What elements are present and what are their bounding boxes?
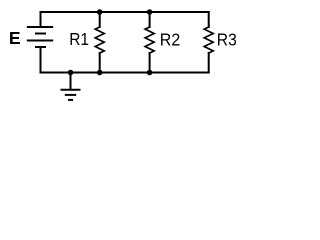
junction dot: R2 bottom node: [147, 70, 153, 76]
battery plate: short (-) top cell: [36, 33, 45, 35]
battery plate: long (+) top cell: [28, 26, 52, 28]
resistor R3 zigzag body: [204, 27, 213, 53]
wire: R1 bottom lead: [99, 53, 101, 73]
junction dot: R2 top node: [147, 9, 153, 15]
ground bar 2: [66, 94, 75, 96]
wire: R2 bottom lead: [149, 53, 151, 73]
svg-text:E: E: [9, 28, 21, 48]
wire: left rail upper segment (battery + to top rail corner): [40, 12, 42, 27]
wire: top rail: [41, 11, 209, 13]
wire: R3 bottom lead (right rail lower): [208, 53, 210, 73]
resistor R2 zigzag body: [145, 27, 154, 53]
svg-text:R1: R1: [69, 29, 89, 49]
battery plate: long (+) bottom cell: [28, 40, 52, 42]
resistor R2: [145, 12, 154, 73]
junction dot: ground bottom node: [68, 70, 74, 76]
resistor R3: [204, 12, 213, 73]
svg-text:R2: R2: [160, 29, 180, 49]
wire: R2 top lead: [149, 12, 151, 27]
battery E: [28, 27, 52, 47]
ground bar 1: [62, 89, 80, 91]
wire: bottom rail: [41, 72, 209, 74]
junction dot: R1 top node: [97, 9, 103, 15]
resistor R1: [95, 12, 104, 73]
wire: ground stub: [70, 73, 72, 90]
battery plate: short (-) bottom cell: [36, 46, 45, 48]
svg-text:R3: R3: [217, 29, 237, 49]
ground: [62, 73, 80, 100]
resistor R1 zigzag body: [95, 27, 104, 53]
ground bar 3: [69, 99, 72, 101]
junction dot: R1 bottom node: [97, 70, 103, 76]
wire: R3 top lead (right rail upper): [208, 12, 210, 27]
wire: R1 top lead: [99, 12, 101, 27]
wire: left rail lower segment (battery - to bottom rail corner): [40, 48, 42, 73]
